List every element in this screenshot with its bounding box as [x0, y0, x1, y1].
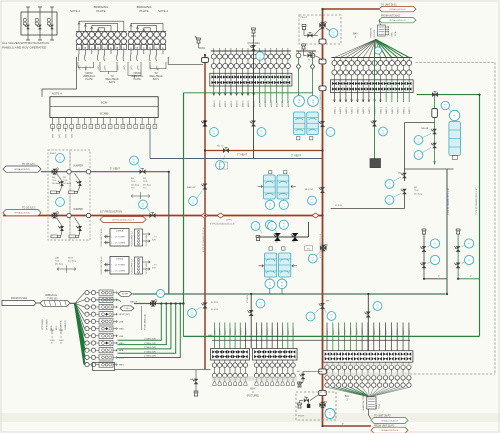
hanging leads	[77, 54, 80, 61]
svg-text:MED 9: MED 9	[230, 328, 232, 335]
SCM pin letter row	[51, 125, 55, 129]
bank top bar	[211, 50, 291, 52]
svg-text:3M: 3M	[52, 177, 55, 179]
svg-text:4″ VENT: 4″ VENT	[247, 295, 249, 303]
NC valve big 1	[274, 233, 281, 241]
check valve diamond 2	[217, 213, 224, 218]
right riser black	[446, 169, 448, 279]
arrow tail on drop	[434, 161, 436, 165]
svg-text:SCMB: SCMB	[100, 111, 109, 115]
svg-text:SCM W/L: SCM W/L	[374, 29, 376, 37]
row1 spare tag	[118, 291, 132, 296]
pilot instrument	[329, 29, 338, 38]
svg-text:8″-PY-05-02-M200-312-J-N: 8″-PY-05-02-M200-312-J-N	[320, 85, 322, 110]
valve on bay3 feed	[372, 121, 377, 127]
svg-text:MED 9: MED 9	[283, 328, 285, 335]
instrument PT vent box1	[56, 154, 65, 163]
drop to NB-GB valves	[434, 95, 436, 165]
svg-text:COMMS A: COMMS A	[59, 320, 62, 330]
svg-text:1″ MEG (SP): 1″ MEG (SP)	[144, 347, 156, 349]
PG valve on V2	[305, 246, 313, 251]
vent riser down	[168, 172, 170, 294]
plug branch A link	[424, 278, 447, 280]
PG gauge	[308, 254, 317, 263]
svg-text:PLATE: PLATE	[85, 78, 93, 81]
bank pin circles row1	[333, 58, 335, 61]
pin box	[121, 45, 126, 50]
svg-text:B: B	[137, 46, 139, 50]
svg-text:8″-PP-05-02-M200-312-J-N: 8″-PP-05-02-M200-312-J-N	[203, 227, 205, 252]
jumper box1 bottom plug	[51, 235, 61, 238]
red production bus 10in	[3, 215, 323, 217]
svg-text:LPA: LPA	[119, 320, 124, 323]
riser drops to bay4	[250, 294, 252, 349]
branch plug	[457, 231, 460, 234]
svg-text:(SP): (SP)	[105, 65, 107, 70]
NC valve big 2	[292, 233, 299, 241]
third accumulator side arrows	[259, 265, 264, 268]
svg-text:→ TO: → TO	[152, 237, 157, 239]
svg-text:PANELS ARE ROV OPERATED: PANELS ARE ROV OPERATED	[2, 46, 47, 50]
branch valve 2	[456, 263, 461, 269]
flying lead accumulator stack	[449, 110, 459, 120]
jumper dashed box 2	[70, 150, 90, 240]
svg-text:MED 9: MED 9	[262, 328, 264, 335]
svg-text:MED 9: MED 9	[272, 328, 274, 335]
bracket to wellhead bays A	[100, 62, 117, 72]
svg-text:7″-PS-05-02-M200-307-2-L-M: 7″-PS-05-02-M200-307-2-L-M	[448, 188, 450, 215]
svg-text:NOTE 4: NOTE 4	[52, 92, 63, 96]
svg-text:UMBILICAL: UMBILICAL	[45, 294, 58, 297]
DAV arrows	[57, 268, 76, 271]
svg-text:DSM B: DSM B	[116, 259, 123, 261]
svg-text:28Y30A-U-DW-2025: 28Y30A-U-DW-2025	[14, 212, 30, 215]
branch valve 1	[422, 246, 427, 252]
branch valves below vent line	[60, 181, 64, 185]
svg-text:G: G	[104, 46, 106, 50]
svg-text:MED 9: MED 9	[403, 328, 405, 335]
V2 coupling pills bottom	[319, 369, 327, 374]
pilot dashed box bottom	[296, 392, 336, 420]
svg-text:HP POWER: HP POWER	[42, 319, 44, 330]
pilot bottom rov valve	[319, 403, 325, 407]
svg-text:LP POWER: LP POWER	[47, 319, 49, 330]
green header from bay2	[417, 94, 480, 96]
svg-text:(SP): (SP)	[53, 134, 55, 138]
svg-text:240 barg: 240 barg	[131, 184, 139, 186]
svg-text:MED 9: MED 9	[240, 328, 242, 335]
svg-text:(SP): (SP)	[117, 65, 119, 70]
production hexagon tag	[100, 217, 146, 223]
svg-text:NB-GB: NB-GB	[422, 128, 429, 130]
svg-text:MG: MG	[326, 301, 330, 303]
pin box	[96, 45, 101, 50]
bank drop columns	[214, 323, 216, 349]
bank circle rows	[214, 360, 216, 363]
svg-text:MED 5: MED 5	[225, 100, 227, 107]
bank valve box	[253, 349, 298, 361]
3in vent bus	[41, 171, 169, 173]
isolation panel legend box	[21, 12, 57, 35]
jumper box1 bottom valve	[60, 226, 64, 231]
svg-text:MED 9: MED 9	[345, 328, 347, 335]
right mid link box	[405, 122, 435, 124]
svg-text:240 barg: 240 barg	[55, 264, 63, 266]
bay3 gray row bands	[324, 363, 412, 366]
vent line rov valve	[52, 170, 58, 174]
wire group A to SCM	[42, 57, 77, 97]
svg-text:3M: 3M	[143, 178, 146, 180]
bank drop columns	[256, 323, 258, 349]
svg-text:1→: 1→	[111, 243, 114, 245]
NC gauge 1	[251, 222, 260, 231]
svg-text:NC: NC	[297, 371, 301, 373]
DSM B connector column	[135, 257, 143, 274]
svg-text:(SP): (SP)	[59, 134, 61, 138]
svg-text:FROM UNIT 26-P2: FROM UNIT 26-P2	[374, 424, 395, 427]
rov valve on MED3	[150, 301, 156, 305]
vent stack top plug	[252, 30, 255, 33]
bank column tails and labels	[333, 93, 335, 103]
junction dots	[204, 214, 206, 216]
production line coupling circle 2	[86, 213, 90, 217]
svg-text:MED 9: MED 9	[293, 328, 295, 335]
DSM B box	[110, 257, 129, 275]
svg-text:PILOT: PILOT	[298, 416, 305, 418]
row1 line to collector	[132, 293, 133, 295]
svg-text:PLATE: PLATE	[139, 9, 148, 13]
svg-text:TUTA: TUTA	[394, 31, 397, 37]
pin box	[154, 45, 159, 50]
bracket to wellhead bays B	[150, 62, 166, 69]
riser drop to bay3	[367, 294, 369, 351]
svg-text:TO OS ILS 1: TO OS ILS 1	[22, 207, 36, 210]
svg-text:MED 9: MED 9	[215, 328, 217, 335]
svg-text:MED 5: MED 5	[380, 106, 382, 113]
pilot plug top	[302, 26, 305, 29]
svg-text:MEG: MEG	[119, 365, 124, 367]
bay3 umbilical connector box	[367, 397, 376, 409]
umbilical fan hash ticks	[44, 301, 46, 306]
legend valve V03	[51, 7, 53, 40]
vent stack vertical	[253, 46, 255, 159]
svg-text:DC POWER: DC POWER	[115, 237, 126, 239]
DSM A connector column	[135, 229, 143, 246]
accumulator pair third	[269, 247, 272, 250]
valve on green header	[432, 92, 438, 97]
svg-text:MED 9: MED 9	[235, 328, 237, 335]
svg-text:BAY: BAY	[250, 387, 255, 391]
pilot dashed box top	[299, 15, 341, 44]
svg-text:MED 9: MED 9	[245, 328, 247, 335]
svg-text:NOTE 4: NOTE 4	[70, 9, 81, 13]
bank isolation valve box	[210, 73, 292, 86]
svg-text:→ TO: → TO	[152, 265, 157, 267]
wire group B to supply header	[168, 57, 203, 64]
check valve diamond 3	[312, 213, 319, 218]
branch plug	[422, 231, 425, 234]
svg-text:DC POWER: DC POWER	[115, 265, 126, 267]
green MED distribution header	[183, 335, 479, 337]
pilot rov valve on V2	[319, 23, 325, 27]
DSM B to umbilical arrows	[143, 261, 151, 263]
green riser right	[479, 95, 481, 337]
umbilical trunk	[36, 302, 40, 304]
jumper spec arrows	[131, 195, 150, 198]
svg-text:MED 5: MED 5	[340, 106, 342, 113]
DSM A to umbilical arrows	[143, 233, 151, 235]
svg-text:3" VENT: 3" VENT	[110, 167, 120, 171]
legend valve V01	[27, 7, 29, 40]
svg-text:MED: MED	[51, 325, 53, 330]
svg-text:COMMS B: COMMS B	[65, 320, 67, 330]
svg-text:JUMPER: JUMPER	[73, 208, 83, 211]
svg-text:C: C	[91, 46, 93, 50]
svg-text:MED 9: MED 9	[397, 328, 399, 335]
svg-text:MED 9: MED 9	[386, 328, 388, 335]
svg-text:E: E	[110, 46, 112, 50]
bay4 gray band	[212, 376, 297, 381]
svg-text:HPLP (SP): HPLP (SP)	[119, 314, 130, 316]
svg-text:DSM A: DSM A	[116, 230, 123, 233]
bay4 riser valve	[249, 310, 254, 316]
DSM A left connectors	[104, 236, 110, 238]
svg-text:8″: 8″	[342, 424, 344, 426]
bank pin circles row2	[213, 59, 215, 64]
svg-text:MED 5: MED 5	[220, 100, 222, 107]
svg-text:SD (SP): SD (SP)	[122, 294, 129, 296]
svg-text:MED 9: MED 9	[267, 328, 269, 335]
svg-text:MED 5: MED 5	[363, 106, 365, 113]
bank valve box	[323, 351, 413, 363]
svg-text:E: E	[162, 46, 164, 50]
svg-text:MED 5: MED 5	[409, 106, 411, 113]
accumulator pair lower	[269, 171, 272, 174]
bracket from umbilical plate B	[128, 62, 141, 76]
V1 plug top	[197, 40, 200, 43]
hexagon to flying lead link	[379, 20, 381, 25]
bracket from umbilical plate A	[78, 62, 94, 68]
svg-text:MED 9: MED 9	[220, 328, 222, 335]
svg-text:MED 9: MED 9	[327, 328, 329, 335]
pin box	[89, 45, 94, 50]
production line coupling circle	[67, 213, 71, 217]
svg-text:A: A	[123, 46, 125, 50]
NB valve 2	[432, 143, 437, 149]
green columns continue bay1	[258, 95, 260, 103]
third accumulator gauge 2	[277, 279, 287, 289]
7in vent header	[150, 158, 322, 160]
bank pin circles row1	[213, 51, 215, 54]
svg-text:28Y30A-U-DW-25U-04: 28Y30A-U-DW-25U-04	[381, 429, 398, 432]
svg-text:BAYS: BAYS	[153, 78, 160, 81]
plug fittings box1	[51, 191, 60, 194]
production line rov valve	[52, 213, 58, 217]
bay1 upper stubs	[213, 48, 215, 51]
svg-text:8″ PP-05-02-M200-312-J-N: 8″ PP-05-02-M200-312-J-N	[210, 224, 235, 226]
svg-text:1→: 1→	[111, 265, 114, 267]
svg-text:MED 5: MED 5	[403, 106, 405, 113]
svg-text:TO SCM UMB: TO SCM UMB	[146, 234, 148, 246]
svg-text:MED: MED	[208, 335, 213, 337]
pin box	[141, 45, 146, 50]
scm flying lead fan	[334, 39, 375, 57]
svg-text:PILOT: PILOT	[301, 17, 308, 19]
jumper dashed box 1	[48, 150, 70, 240]
red bottom header to unit 26-P2	[323, 425, 372, 427]
svg-text:MED 5: MED 5	[237, 100, 239, 107]
svg-text:1→: 1→	[111, 271, 114, 273]
instrument junction circle G	[157, 290, 165, 298]
svg-text:MED 5: MED 5	[398, 106, 400, 113]
svg-text:FROM UMB TUTA W/L: FROM UMB TUTA W/L	[100, 256, 103, 274]
svg-text:C: C	[143, 46, 145, 50]
svg-text:MED-GP: MED-GP	[187, 187, 196, 189]
svg-text:BAYS: BAYS	[109, 81, 116, 84]
V1 bottom valve	[203, 303, 208, 309]
umbilical fan lines	[75, 293, 85, 304]
pin box	[160, 45, 165, 50]
svg-text:L: L	[116, 127, 117, 129]
branch valve 1	[456, 246, 461, 252]
gauge JB2	[308, 96, 319, 107]
green MED3 line	[134, 303, 184, 305]
svg-text:MED 9: MED 9	[257, 328, 259, 335]
plug branch B link	[458, 278, 479, 280]
svg-text:MED 5: MED 5	[334, 106, 336, 113]
svg-text:(SP): (SP)	[124, 65, 126, 70]
vent stack valve mid	[251, 121, 256, 127]
svg-text:DC COMMS: DC COMMS	[115, 271, 126, 273]
bank drop columns	[326, 323, 328, 351]
svg-text:3L STB: 3L STB	[211, 309, 218, 311]
svg-text:1→: 1→	[111, 237, 114, 239]
green bay3 feed vertical	[374, 41, 376, 168]
pin box	[108, 45, 113, 50]
dashed spare horizontal	[410, 373, 495, 375]
T2 DSM labels	[51, 330, 53, 334]
svg-text:MED 5: MED 5	[231, 100, 233, 107]
svg-text:(SP): (SP)	[157, 65, 159, 70]
fan instrument circle	[374, 47, 381, 54]
svg-text:TO OS ILS 1: TO OS ILS 1	[22, 163, 36, 166]
vent line coupling circle 2	[86, 170, 90, 174]
pilot bottom instrument	[325, 409, 335, 419]
svg-text:240 barg: 240 barg	[63, 183, 71, 185]
svg-text:MED: MED	[119, 329, 124, 331]
svg-text:MED 9: MED 9	[391, 328, 393, 335]
row2 green to MED3 tag	[96, 299, 118, 301]
third accumulator gauge 1	[265, 279, 275, 289]
bank circle rows	[256, 360, 258, 363]
svg-text:3M: 3M	[414, 187, 417, 189]
MED long drop corner	[182, 304, 184, 337]
svg-text:DAV: DAV	[55, 257, 60, 260]
svg-text:(TYP): (TYP)	[226, 220, 232, 222]
svg-text:TUTA UMBILICAL: TUTA UMBILICAL	[144, 313, 147, 330]
DSM signal drops green	[143, 234, 166, 236]
bay 3 fan to umbilical	[327, 387, 370, 397]
red jumper V1	[204, 55, 206, 370]
pilot bottom dark plug	[307, 404, 310, 408]
svg-text:MED 5: MED 5	[248, 100, 250, 107]
svg-text:3″ VENT: 3″ VENT	[291, 154, 301, 158]
svg-text:(SP): (SP)	[65, 134, 67, 138]
svg-text:NC 7C: NC 7C	[217, 146, 224, 148]
svg-text:MED 9: MED 9	[362, 328, 364, 335]
svg-text:7″ VENT: 7″ VENT	[237, 153, 247, 157]
V2 valve upper	[320, 121, 325, 127]
svg-text:UMBILICAL TYPE 300: UMBILICAL TYPE 300	[362, 392, 365, 411]
svg-text:(SP): (SP)	[150, 65, 152, 70]
svg-text:3M: 3M	[63, 177, 66, 179]
svg-text:RLU-GP: RLU-GP	[305, 189, 314, 191]
pin box	[102, 45, 107, 50]
SCM spare labels	[52, 128, 54, 131]
svg-text:MED 5: MED 5	[357, 106, 359, 113]
DSM A box	[110, 229, 129, 247]
flying lead arrows	[385, 26, 389, 28]
legend valve V02	[39, 7, 41, 40]
gauge JB1	[294, 96, 305, 107]
svg-text:28Y30A-U-DW-2025: 28Y30A-U-DW-2025	[14, 168, 30, 171]
svg-text:MED 9: MED 9	[350, 328, 352, 335]
vent stack valve top	[251, 45, 256, 51]
green MED riser	[183, 93, 185, 304]
svg-text:240 barg: 240 barg	[414, 193, 422, 195]
svg-text:D (SP): D (SP)	[125, 308, 130, 310]
svg-text:NOTE 4: NOTE 4	[158, 9, 169, 13]
svg-text:MED 5: MED 5	[242, 100, 244, 107]
svg-text:MED 5: MED 5	[254, 100, 256, 107]
bay3 umbilical link to hexagon	[369, 409, 372, 419]
coupling on drop	[432, 109, 438, 118]
svg-text:28Y30A-U-DW-25U-03: 28Y30A-U-DW-25U-03	[381, 419, 398, 422]
pin box	[135, 45, 140, 50]
svg-text:MED 9: MED 9	[409, 328, 411, 335]
svg-text:MED 9: MED 9	[374, 328, 376, 335]
bay3 riser valve	[366, 312, 371, 318]
svg-text:1″ MEG (SP): 1″ MEG (SP)	[144, 339, 156, 341]
svg-text:BAY: BAY	[353, 32, 358, 36]
green feeds to gauges	[296, 50, 316, 52]
svg-text:1″ MEG (SP): 1″ MEG (SP)	[144, 343, 156, 345]
jumper box2 bottom plug	[69, 235, 79, 238]
svg-text:3L STB: 3L STB	[335, 205, 342, 207]
svg-text:B: B	[85, 46, 87, 50]
svg-text:D: D	[97, 46, 99, 50]
svg-text:PLATE: PLATE	[133, 78, 141, 81]
spare box below umbilical bank	[93, 363, 115, 371]
V1 valve mid	[203, 121, 208, 127]
long spare line	[115, 369, 211, 371]
scan artifact band	[0, 413, 500, 422]
vent line coupling circle	[67, 170, 71, 174]
plug fittings box2	[69, 191, 78, 194]
dashed spare riser right edge	[416, 62, 496, 64]
svg-text:A: A	[130, 46, 132, 50]
pilot bottom plug	[298, 405, 301, 408]
svg-text:MED 5: MED 5	[352, 106, 354, 113]
pilot lower valve	[307, 53, 312, 57]
TUTA bracket	[141, 306, 143, 330]
svg-text:(SP): (SP)	[72, 134, 74, 138]
svg-text:A: A	[78, 46, 80, 50]
bay 4 plugs row	[214, 378, 216, 381]
connector row circles	[76, 31, 127, 33]
svg-text:PWR/COMMS OUT: PWR/COMMS OUT	[132, 258, 134, 275]
bank valve box	[211, 349, 250, 361]
